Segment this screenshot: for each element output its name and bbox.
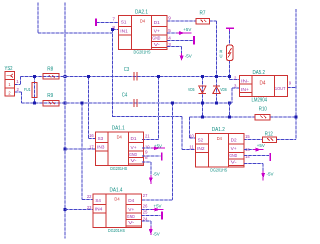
power -5V arrow at DA1.1 <box>142 161 151 163</box>
ground bar at DA1.4 <box>161 212 163 220</box>
wire top rail to DA1.1 D pin x158.3 <box>157 76 159 139</box>
svg-text:R7: R7 <box>200 11 206 17</box>
svg-text:S2: S2 <box>198 137 204 142</box>
capacitor C3 <box>133 72 135 80</box>
ground bar at DA2.1 <box>193 36 195 45</box>
svg-text:2: 2 <box>17 87 20 92</box>
wire bottom rail jog to DA5.2 IN+ pin <box>230 102 233 104</box>
svg-text:D1: D1 <box>131 136 137 141</box>
svg-text:V+: V+ <box>154 29 160 34</box>
op-amp DA5.2 outline <box>240 76 288 97</box>
svg-text:27: 27 <box>143 193 148 198</box>
power -5V arrow at DA1.2 <box>244 162 263 164</box>
wire horizontal bus y116.5 left segment to IN2 <box>113 116 183 118</box>
svg-text:1: 1 <box>16 79 19 84</box>
node junction x65 bottom rail <box>64 102 67 105</box>
svg-text:D4: D4 <box>128 198 134 203</box>
node junction x229.5 bottom rail <box>228 102 231 105</box>
svg-text:9: 9 <box>289 80 292 85</box>
svg-text:15: 15 <box>245 134 250 139</box>
diode VD5 <box>199 86 206 93</box>
svg-text:2: 2 <box>234 75 237 80</box>
svg-text:DA1.4: DA1.4 <box>110 188 123 194</box>
power +5V arrow at DA2.1 <box>167 32 177 34</box>
svg-text:S1: S1 <box>121 20 127 25</box>
node junction x229.5 y117 <box>228 116 231 119</box>
svg-text:V-: V- <box>128 220 135 225</box>
svg-text:5: 5 <box>168 28 171 33</box>
svg-text:C4: C4 <box>122 93 128 99</box>
wire bottom rail to DA1.4 D pin x172.5 <box>172 103 174 200</box>
wire horizontal bus y117 right segment <box>190 116 256 118</box>
svg-text:-5V: -5V <box>185 54 193 60</box>
svg-text:R10: R10 <box>259 107 267 113</box>
power +5V arrow at DA1.1 <box>142 147 151 149</box>
node junction x82 bottom rail <box>81 102 84 105</box>
fuse FU1 body <box>32 83 37 98</box>
svg-text:3: 3 <box>234 84 237 89</box>
node junction VD6 top <box>215 75 218 78</box>
node junction x202.4 y117 <box>201 116 204 119</box>
wire YS2 pin1 stub <box>15 84 21 86</box>
node junction VD6 bottom <box>215 102 218 105</box>
wire rail to DA5.2 IN- pin <box>230 79 240 81</box>
power rail tap above RU2 <box>226 27 234 29</box>
svg-text:V+: V+ <box>128 207 134 212</box>
wire top analog rail y76.4 <box>21 75 230 77</box>
node junction FU1 bottom <box>33 102 36 105</box>
svg-text:-5V: -5V <box>153 231 161 237</box>
svg-text:S3: S3 <box>98 136 104 141</box>
svg-text:V-: V- <box>231 160 238 165</box>
wire through fuse FU1 <box>34 76 36 103</box>
resistor R10 <box>255 114 270 120</box>
node junction x65 top rail <box>64 75 67 78</box>
node junction x88.6 top rail <box>87 75 90 78</box>
svg-text:D4: D4 <box>140 18 146 23</box>
wire DA5.2 output to right bus <box>288 87 296 89</box>
wire bus right segment down to S2 of DA1.2 <box>189 117 191 138</box>
svg-text:R9: R9 <box>47 93 53 99</box>
wire IN4 branch y209.5 <box>65 209 93 211</box>
svg-text:U: U <box>220 54 223 59</box>
ground bar at DA1.1 <box>161 153 163 161</box>
svg-text:D4: D4 <box>217 136 223 141</box>
wire long vertical bus x65 <box>64 3 66 239</box>
svg-text:GND: GND <box>127 214 136 219</box>
IC DA2.1 outline <box>119 16 167 50</box>
IC DA1.1 outline <box>95 132 143 166</box>
svg-text:DA1.2: DA1.2 <box>212 127 225 133</box>
svg-text:9: 9 <box>168 16 171 21</box>
wire right vertical bus x296 <box>295 9 297 140</box>
node junction VD5 top <box>201 75 204 78</box>
svg-text:26: 26 <box>143 204 148 209</box>
svg-text:DA1.1: DA1.1 <box>112 126 125 132</box>
svg-text:VD5: VD5 <box>188 87 195 93</box>
wire x229.5 down to bus y117 <box>229 103 231 117</box>
power +5V arrow at DA1.4 <box>142 209 153 211</box>
node junction pin8 <box>111 28 114 31</box>
surge protector RU2 body <box>227 45 233 61</box>
svg-text:11: 11 <box>189 145 194 150</box>
svg-text:10: 10 <box>189 134 194 139</box>
svg-text:IN3: IN3 <box>97 145 105 150</box>
svg-text:14: 14 <box>245 154 250 159</box>
svg-text:D4: D4 <box>117 135 123 140</box>
svg-text:+5V: +5V <box>257 143 266 149</box>
svg-text:22: 22 <box>87 194 92 199</box>
svg-text:IN4: IN4 <box>95 207 103 212</box>
node junction x65 IN3 branch <box>64 148 67 151</box>
svg-text:GND: GND <box>229 153 238 158</box>
svg-text:V-: V- <box>154 42 161 47</box>
ground bar at DA1.2 <box>269 153 271 161</box>
svg-text:DG201HS: DG201HS <box>108 228 125 234</box>
power rail tap at DA2.1 pin7 <box>95 19 97 27</box>
wire DA2.1 S1 pin7 <box>97 22 119 24</box>
svg-text:DG201HS: DG201HS <box>110 166 127 172</box>
wire YS2 pin2 stub <box>15 91 22 93</box>
node junction VD5 bottom <box>201 102 204 105</box>
svg-text:IN-: IN- <box>241 79 250 84</box>
svg-text:D4: D4 <box>114 197 120 202</box>
capacitor C4 <box>133 99 135 107</box>
wire horizontal y33 to IN1 net <box>38 32 113 34</box>
svg-text:DA5.2: DA5.2 <box>253 70 266 76</box>
connector YS2 coax contact symbol <box>7 74 14 77</box>
wire bus left segment down to IN2 of DA1.2 <box>181 117 183 150</box>
svg-text:DG201HS: DG201HS <box>210 167 227 173</box>
resistor R8 <box>43 74 59 80</box>
svg-text:8: 8 <box>112 25 115 30</box>
power +5V arrow at DA1.2 <box>244 149 253 151</box>
svg-text:1OUT: 1OUT <box>275 86 286 91</box>
svg-text:C3: C3 <box>124 67 130 73</box>
wire R12 row y139.5 <box>244 139 263 141</box>
svg-text:+5V: +5V <box>154 144 163 150</box>
power -5V arrow at DA1.4 <box>142 220 151 222</box>
ground wire at DA1.2 <box>244 155 269 157</box>
svg-text:21: 21 <box>145 134 150 139</box>
wire bottom rail to S4 of DA1.4 <box>81 103 83 199</box>
svg-text:17: 17 <box>89 144 94 149</box>
wire R7 to rail / VD6 stem x216.5 <box>216 21 218 103</box>
resistor R12 <box>262 137 276 143</box>
svg-text:VD6: VD6 <box>220 87 227 93</box>
svg-text:GND: GND <box>129 152 138 157</box>
svg-text:LM2904: LM2904 <box>252 98 268 104</box>
connector YS2 body <box>5 72 15 97</box>
resistor R7 <box>196 18 210 24</box>
ground wire at DA2.1 <box>167 40 193 42</box>
node junction x229.5 top rail <box>228 75 231 78</box>
svg-text:-5V: -5V <box>153 172 161 178</box>
svg-text:IN2: IN2 <box>197 146 205 151</box>
node junction x296 y117 <box>295 116 298 119</box>
power -5V arrow at DA2.1 <box>167 46 182 48</box>
svg-text:23: 23 <box>87 205 92 210</box>
svg-text:7: 7 <box>112 17 115 22</box>
wire VD5 stem x202.4 <box>201 76 203 117</box>
svg-text:4: 4 <box>168 35 171 40</box>
svg-text:DG201HS: DG201HS <box>134 50 151 56</box>
svg-text:IN+: IN+ <box>241 87 249 92</box>
svg-text:16: 16 <box>89 133 94 138</box>
wire bottom analog rail y103 <box>21 102 229 104</box>
svg-text:S4: S4 <box>95 198 101 203</box>
wire surge protector chain x229.5 <box>229 31 231 45</box>
node junction x65 IN4 branch <box>64 208 67 211</box>
svg-text:D4: D4 <box>260 81 266 87</box>
svg-text:9: 9 <box>145 149 148 154</box>
node junction x172.5 bottom rail <box>171 102 174 105</box>
svg-text:GND: GND <box>152 36 161 41</box>
ground wire at DA1.4 <box>142 214 161 216</box>
wire R8 rail to S3 of DA1.1 <box>88 76 90 138</box>
node junction x158.3 top rail <box>157 75 160 78</box>
svg-text:D2: D2 <box>231 138 237 143</box>
svg-text:V+: V+ <box>231 146 237 151</box>
svg-text:D1: D1 <box>154 20 160 25</box>
svg-text:R8: R8 <box>47 67 53 73</box>
svg-text:25: 25 <box>143 210 148 215</box>
svg-text:-5V: -5V <box>267 172 275 178</box>
node junction FU1 top <box>33 75 36 78</box>
IC DA1.2 outline <box>196 133 244 167</box>
diode VD6 <box>213 87 220 94</box>
svg-text:V-: V- <box>131 158 138 163</box>
ground wire at DA1.1 <box>142 155 161 157</box>
IC DA1.4 outline <box>93 194 141 228</box>
wire DA2.1 D1 pin9 to R7 <box>167 20 196 22</box>
svg-text:+5V: +5V <box>154 203 163 209</box>
svg-text:+5V: +5V <box>183 27 192 33</box>
wire IN3 branch y149 <box>65 148 95 150</box>
svg-text:DA2.1: DA2.1 <box>135 9 148 15</box>
svg-text:IN1: IN1 <box>120 28 128 33</box>
wire IN1 pin8 vertical x112.5 <box>112 30 114 118</box>
wire vertical from top-left <box>37 3 39 34</box>
svg-text:FU1: FU1 <box>24 87 31 92</box>
svg-text:V+: V+ <box>131 145 137 150</box>
resistor R9 <box>43 100 59 106</box>
